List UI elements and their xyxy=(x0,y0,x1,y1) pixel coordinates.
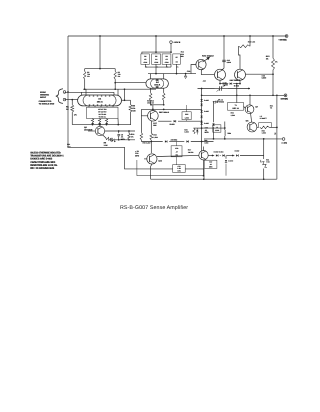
svg-text:R4: R4 xyxy=(144,55,146,58)
node SA1 output arrow xyxy=(202,55,214,61)
wire R3 leg xyxy=(114,69,116,90)
label R30b xyxy=(262,129,267,134)
svg-text:C-18: C-18 xyxy=(220,99,224,102)
terminal -10V xyxy=(280,94,288,101)
wire right long vertical xyxy=(276,95,278,179)
junction R3 xyxy=(114,82,116,90)
svg-text:12 WATT: 12 WATT xyxy=(260,117,268,120)
label Q3 type xyxy=(203,79,241,83)
diode D16 xyxy=(214,150,225,156)
diode D11 xyxy=(200,116,202,118)
svg-text:1,500: 1,500 xyxy=(154,136,158,139)
resistor R13 xyxy=(266,55,278,70)
svg-text:R7: R7 xyxy=(176,56,178,59)
capacitor C31 box xyxy=(173,165,186,173)
svg-text:MFD: MFD xyxy=(135,154,140,157)
svg-text:.47: .47 xyxy=(176,150,178,153)
wire diode mid line xyxy=(158,120,201,122)
op-amp S2 101-A xyxy=(146,79,169,88)
svg-text:C20: C20 xyxy=(187,70,190,73)
diode D7 xyxy=(186,140,188,142)
transistor Q10 xyxy=(199,151,208,160)
label R9 xyxy=(104,142,109,148)
ground G1 xyxy=(184,74,187,79)
svg-text:Q16: Q16 xyxy=(159,159,162,162)
svg-text:W8: W8 xyxy=(246,120,249,123)
junction emitter down xyxy=(236,83,238,96)
node input brace xyxy=(56,89,63,104)
terminal input lower xyxy=(63,98,66,101)
wire S2 box verticals xyxy=(146,36,177,74)
wire S2 leg b xyxy=(163,88,165,105)
resistor R4 box xyxy=(141,54,150,64)
resistor R7 box xyxy=(173,54,181,64)
svg-text:1W 5%: 1W 5% xyxy=(188,151,194,154)
resistor R31 diag xyxy=(261,160,267,168)
wire Q6 base line xyxy=(105,130,135,132)
svg-text:A1: A1 xyxy=(98,98,102,101)
wire Q4 collector xyxy=(249,36,251,44)
svg-text:D-670: D-670 xyxy=(229,160,234,163)
svg-text:101-A: 101-A xyxy=(97,100,103,103)
wire output drop xyxy=(263,139,265,179)
svg-text:1,000: 1,000 xyxy=(215,129,219,132)
wire bottom rail S1 xyxy=(72,124,131,126)
label Q8 xyxy=(246,120,249,123)
svg-text:RS-B-G007 Sense Amplifier: RS-B-G007 Sense Amplifier xyxy=(120,205,188,211)
transistor Q2 xyxy=(196,59,206,69)
wire RC drop a xyxy=(118,131,120,133)
wire input lower xyxy=(65,99,78,101)
wire -10V rail xyxy=(202,94,285,96)
resistor R8 xyxy=(129,105,136,113)
junction input lower xyxy=(71,99,73,101)
junction diode row xyxy=(150,141,202,143)
wire Q4 right link xyxy=(246,73,274,75)
wire RC to step xyxy=(124,140,126,148)
diode D14 xyxy=(212,123,214,125)
svg-text:CDN: CDN xyxy=(165,61,169,64)
junction output rail xyxy=(213,136,264,139)
wire R1 branch xyxy=(71,100,73,125)
wire S1 to pinbox xyxy=(89,106,113,107)
wire Q2 collector out xyxy=(203,59,208,62)
svg-text:SA1 Output: SA1 Output xyxy=(202,55,214,58)
junction Q4 link xyxy=(272,73,274,75)
svg-text:6,800: 6,800 xyxy=(227,61,231,64)
svg-text:L1: L1 xyxy=(216,126,218,129)
wire Q6 emitter diag xyxy=(103,135,107,138)
wire Q5 emitter xyxy=(150,121,152,133)
diode D18 xyxy=(225,160,233,163)
svg-text:R5: R5 xyxy=(155,55,157,58)
svg-text:C30: C30 xyxy=(175,147,178,150)
op-amp S1 101-A xyxy=(78,95,122,106)
svg-text:1,500: 1,500 xyxy=(185,116,189,119)
capacitor C30 box xyxy=(171,146,182,157)
svg-text:1Mh: 1Mh xyxy=(228,132,232,135)
terminal output A xyxy=(281,138,287,145)
label notes xyxy=(30,151,64,170)
junction chain xyxy=(201,94,203,129)
svg-text:RR = R GROUND BUS: RR = R GROUND BUS xyxy=(30,167,54,170)
svg-text:7.5K: 7.5K xyxy=(266,161,270,164)
terminal +10V(B) xyxy=(278,35,288,42)
svg-text:TK RD CL: TK RD CL xyxy=(99,115,106,118)
svg-text:680: 680 xyxy=(181,55,184,58)
wire Q2 emitter xyxy=(201,69,214,75)
diode D8 xyxy=(200,99,208,102)
wire collector rail y109 xyxy=(141,109,201,115)
junction Q4 emitter xyxy=(239,83,241,85)
wire y169 cont xyxy=(185,169,204,179)
wire Q7 collector xyxy=(249,95,251,105)
wire rail above S1 xyxy=(83,88,156,90)
diode D9 xyxy=(200,104,202,106)
wire Q9 out xyxy=(157,155,199,156)
wire RC drop b xyxy=(128,131,130,133)
resistor R25 box xyxy=(182,112,191,120)
capacitor C20 label xyxy=(187,70,191,73)
svg-text:D-662 D-664: D-662 D-664 xyxy=(214,150,224,153)
label caption xyxy=(120,205,188,211)
label R30a xyxy=(260,115,268,120)
svg-text:1%: 1% xyxy=(275,61,278,64)
svg-text:D-662: D-662 xyxy=(170,123,175,126)
wire box feed left xyxy=(142,52,171,54)
junction output drop xyxy=(263,178,265,180)
junction trimmer line xyxy=(201,88,250,90)
label R10 xyxy=(131,133,135,138)
svg-text:EDGE: EDGE xyxy=(40,91,46,94)
junction S2 legs xyxy=(150,104,164,106)
transistor Q3 xyxy=(215,69,226,80)
svg-text:D-662: D-662 xyxy=(204,99,209,102)
svg-text:2-D-662: 2-D-662 xyxy=(171,138,178,141)
junction y176 xyxy=(203,175,205,177)
junction R30 xyxy=(276,127,278,129)
svg-text:1%: 1% xyxy=(176,66,179,69)
resistor R26 xyxy=(184,128,195,134)
svg-text:3-30M: 3-30M xyxy=(223,84,229,87)
transistor Q6 xyxy=(95,126,104,135)
svg-text:T1: T1 xyxy=(235,104,237,107)
wire Q3 collector xyxy=(222,36,224,70)
junction Q10 right xyxy=(212,155,234,157)
diode D13 xyxy=(196,128,198,134)
wire S2 legs join xyxy=(151,105,164,111)
wire Q4 emitter xyxy=(239,80,241,83)
capacitor C18 trimmer xyxy=(215,85,229,92)
wire chain to L2 xyxy=(202,127,225,129)
wire Q9 base xyxy=(144,158,147,160)
svg-text:C6: C6 xyxy=(176,61,178,64)
svg-text:CDN: CDN xyxy=(155,61,159,64)
svg-text:Q7: Q7 xyxy=(256,106,258,109)
inductor L1 box xyxy=(213,125,221,132)
transformer T1 box xyxy=(228,103,244,111)
svg-text:R6: R6 xyxy=(166,55,168,58)
wire C30 leads xyxy=(176,142,178,166)
svg-text:INPUT: INPUT xyxy=(40,96,47,99)
label R11 xyxy=(67,143,72,148)
wire Q8 emitter xyxy=(257,126,259,128)
junction Q3 emitter xyxy=(219,83,221,85)
node pin2 xyxy=(274,132,276,135)
resistor R3 xyxy=(114,71,121,79)
wire S2 top pins xyxy=(151,74,164,79)
svg-text:+10V B: +10V B xyxy=(173,41,180,44)
resistor R15 xyxy=(147,93,155,105)
label R31b xyxy=(270,104,273,109)
label R28r xyxy=(204,139,208,144)
svg-text:1.5K: 1.5K xyxy=(104,144,109,147)
wire +10V top rail xyxy=(68,35,286,37)
svg-text:RT C8 TP2: RT C8 TP2 xyxy=(99,110,107,113)
svg-text:CDN: CDN xyxy=(144,61,148,64)
capacitor C9 xyxy=(117,135,120,140)
svg-text:C4: C4 xyxy=(155,58,157,61)
resistor R6 pinbox xyxy=(98,119,101,126)
diode D15 xyxy=(216,154,218,156)
resistor R1 xyxy=(66,105,74,112)
capacitor C16 label xyxy=(262,74,267,79)
wire left vertical + bottom step xyxy=(68,36,173,169)
wire y67 link xyxy=(146,64,171,67)
label R1 pct xyxy=(74,114,77,117)
junction bottom rail S1 xyxy=(92,124,119,126)
junction R13 bottom xyxy=(272,94,278,96)
wire Q6 base stub xyxy=(88,130,95,132)
svg-text:1%: 1% xyxy=(74,114,77,117)
label Q6 xyxy=(84,126,92,132)
label +3V xyxy=(135,150,140,158)
label C9 xyxy=(121,133,126,141)
svg-text:3,300: 3,300 xyxy=(185,131,189,134)
svg-text:6,800: 6,800 xyxy=(262,77,267,80)
junction Q7 collector xyxy=(249,94,251,96)
wire Q6 collector xyxy=(99,125,101,127)
label box pct xyxy=(145,66,179,69)
inductor L2 xyxy=(225,122,231,139)
transistor Q8 xyxy=(247,122,257,132)
wire S2 leg a xyxy=(150,88,152,105)
label C18 xyxy=(223,81,229,86)
wire Q2 base xyxy=(191,65,196,74)
wire y73 rail xyxy=(148,73,196,75)
resistor R9 diag xyxy=(106,137,116,142)
svg-text:A -(BI): A -(BI) xyxy=(281,141,287,144)
wire diode row xyxy=(141,141,213,143)
junction RC xyxy=(118,130,130,141)
node S1 pin box xyxy=(87,107,119,118)
svg-text:DEC 2894-2: DEC 2894-2 xyxy=(230,79,240,82)
svg-text:CONNECTED: CONNECTED xyxy=(39,100,52,103)
diode D10 xyxy=(200,110,208,113)
wire Q7-Q8 link xyxy=(251,114,252,123)
transistor Q9 xyxy=(147,154,157,164)
label R24 xyxy=(231,112,236,117)
svg-text:R1: R1 xyxy=(66,106,69,109)
junction C26 top xyxy=(213,101,215,140)
resistor R5 box xyxy=(152,54,161,64)
resistor R7 pinbox xyxy=(105,119,108,126)
diode D6 xyxy=(165,138,177,142)
capacitor C18b trimmer xyxy=(214,99,225,104)
wire output rail xyxy=(204,138,282,140)
wire node to S2 input xyxy=(115,82,146,84)
svg-text:1%: 1% xyxy=(131,135,134,138)
svg-text:1,500: 1,500 xyxy=(262,132,266,135)
svg-text:R19 3,300: R19 3,300 xyxy=(143,141,151,144)
resistor R16 xyxy=(162,93,165,101)
wire divider top xyxy=(85,36,116,69)
resistor R19 xyxy=(140,133,150,145)
svg-text:TO SINGLE END: TO SINGLE END xyxy=(39,102,55,105)
svg-text:DEC 10: DEC 10 xyxy=(233,107,239,110)
svg-text:+10V(B): +10V(B) xyxy=(278,39,286,42)
wire D18 drop xyxy=(225,156,227,176)
wire chain bottom xyxy=(193,127,201,129)
wire Q6 emitter run xyxy=(115,139,135,141)
capacitor C15 xyxy=(222,59,231,64)
junction box feed xyxy=(155,51,172,53)
wire Q10 emitter xyxy=(203,160,205,176)
svg-text:1K: 1K xyxy=(66,108,69,111)
junction collector rail xyxy=(152,109,165,111)
resistor R30 loop xyxy=(259,123,277,129)
svg-text:-10V(B): -10V(B) xyxy=(280,98,288,101)
wire R13 column xyxy=(272,36,274,95)
wire R8 leg xyxy=(130,100,132,124)
svg-text:MFD: MFD xyxy=(205,131,210,134)
diode D17 xyxy=(235,150,240,157)
wire bottom rail xyxy=(151,178,277,180)
svg-text:WINDING: WINDING xyxy=(40,93,49,96)
label input note xyxy=(39,91,55,106)
terminal input upper xyxy=(63,91,66,94)
svg-text:DEC 2894-2: DEC 2894-2 xyxy=(159,111,169,114)
wire diode chain xyxy=(201,89,203,152)
diode D12 xyxy=(200,122,208,125)
resistor R2 xyxy=(84,71,91,79)
wire emitter down xyxy=(236,84,238,103)
wire R2 leg xyxy=(84,69,86,90)
transistor Q7 xyxy=(245,105,254,114)
svg-text:WT C7 TP1: WT C7 TP1 xyxy=(98,108,106,111)
junction top rail xyxy=(99,35,274,37)
transistor Q5 xyxy=(148,111,159,122)
junction bottom rail xyxy=(203,178,205,180)
wire Q5 base xyxy=(141,116,148,142)
junction S1 out xyxy=(124,88,126,101)
resistor R5 pinbox xyxy=(91,119,94,126)
label Q2 left xyxy=(181,51,184,58)
wire S1 out xyxy=(122,89,131,100)
resistor R6 box xyxy=(162,54,171,64)
svg-text:1,500: 1,500 xyxy=(231,114,235,117)
label Q9 xyxy=(158,159,162,162)
label Q5 xyxy=(159,111,169,114)
diode D5 xyxy=(170,120,176,126)
svg-text:2: 2 xyxy=(275,132,277,135)
transistor Q4 xyxy=(235,69,246,80)
svg-text:10%: 10% xyxy=(178,169,182,172)
svg-text:JA4: JA4 xyxy=(203,80,206,83)
wire Q10 right xyxy=(208,155,264,157)
svg-text:C5: C5 xyxy=(166,58,168,61)
resistor R18 xyxy=(150,133,153,140)
svg-text:MFD: MFD xyxy=(121,138,126,141)
svg-text:680: 680 xyxy=(154,124,157,127)
junction diode mid xyxy=(201,120,203,122)
resistor R10 xyxy=(128,133,131,140)
wire R18 down xyxy=(150,140,152,153)
svg-text:D-662: D-662 xyxy=(204,110,209,113)
junction R2 bottom xyxy=(84,88,86,90)
wire input upper xyxy=(65,92,115,95)
diode D4 xyxy=(230,82,239,87)
svg-text:1.5K: 1.5K xyxy=(67,145,71,148)
label R27w xyxy=(188,149,194,154)
svg-text:R12 1.5K: R12 1.5K xyxy=(248,41,256,44)
label C26 xyxy=(205,127,210,135)
wire pinbox right leg xyxy=(117,119,119,125)
label R31 xyxy=(266,158,271,163)
svg-text:C3: C3 xyxy=(144,58,146,61)
svg-text:A2: A2 xyxy=(156,81,160,84)
wire T1 right xyxy=(244,106,246,108)
svg-text:100: 100 xyxy=(133,110,136,113)
wire trimmer line xyxy=(198,88,251,90)
svg-text:D-662: D-662 xyxy=(204,122,209,125)
svg-text:C32: C32 xyxy=(209,161,212,164)
junction left vertical xyxy=(67,91,69,93)
svg-text:D-662: D-662 xyxy=(235,150,240,153)
wire S1 top pins xyxy=(86,89,118,95)
junction divider xyxy=(99,68,101,70)
wire Q3 emitter xyxy=(219,80,221,83)
wire Q10 collector xyxy=(203,147,205,151)
wire C26 branch xyxy=(213,102,215,139)
svg-text:PC TD NC: PC TD NC xyxy=(99,113,107,116)
label R18 xyxy=(153,134,158,139)
svg-text:R25: R25 xyxy=(185,113,188,116)
terminal +10V A tap xyxy=(170,41,181,44)
resistor R12 xyxy=(239,44,251,70)
wire Q9 emitter down xyxy=(151,164,152,179)
svg-text:101-A: 101-A xyxy=(154,84,160,87)
junction y73 xyxy=(155,73,186,75)
wire y176 rail xyxy=(137,160,204,176)
label R12 xyxy=(248,41,256,44)
label R17 xyxy=(153,122,157,127)
junction L2 xyxy=(224,127,226,140)
wire emitter link xyxy=(220,83,240,85)
wire R25 leads xyxy=(186,105,188,121)
capacitor C32 box xyxy=(204,160,217,168)
label Q7 xyxy=(255,106,258,109)
